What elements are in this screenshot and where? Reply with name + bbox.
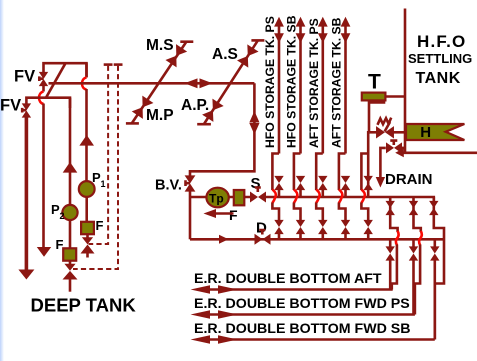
- ER FWD SB double arrow: [191, 335, 238, 344]
- svg-text:AFT STORAGE TK. SB: AFT STORAGE TK. SB: [330, 17, 344, 148]
- arrow right on D line: [219, 235, 229, 244]
- valve FV2: [22, 103, 31, 117]
- valve B.V.: [185, 175, 196, 191]
- svg-text:2: 2: [60, 211, 65, 221]
- svg-text:F: F: [96, 218, 104, 233]
- crossing drop 2: [294, 203, 301, 221]
- svg-text:E.R. DOUBLE BOTTOM FWD PS: E.R. DOUBLE BOTTOM FWD PS: [194, 296, 410, 312]
- wire branch 2 bypass: [415, 245, 420, 315]
- riser 1: [278, 22, 281, 154]
- suction drop to transfer pump: [190, 83, 254, 176]
- double arrow top 1: [274, 17, 284, 43]
- wire F1 valve stem: [86, 253, 89, 258]
- valve B drain cock: [386, 141, 402, 154]
- hop 2 over S line: [294, 190, 297, 204]
- svg-text:T: T: [368, 71, 381, 94]
- svg-text:1: 1: [101, 179, 106, 189]
- M.S M.P diagonal pipe: [132, 42, 187, 124]
- valve M.P: [132, 96, 154, 119]
- arrow down on FV2 line: [18, 270, 34, 280]
- storage group 3: AFT STORAGE TK. PS: [307, 17, 328, 240]
- valve S: [250, 188, 266, 203]
- wire branch 3 lower stems: [433, 239, 436, 339]
- valve ER branch 3 upper: [429, 201, 438, 215]
- wire line2 horizontal: [26, 98, 70, 108]
- svg-text:A.P.: A.P.: [181, 97, 209, 114]
- filter F1: [81, 222, 94, 234]
- ER FWD PS double arrow: [191, 310, 238, 319]
- svg-text:E.R. DOUBLE BOTTOM AFT: E.R. DOUBLE BOTTOM AFT: [194, 271, 382, 287]
- hop FV1 over line2: [39, 92, 44, 105]
- wire deep tank stem: [69, 279, 72, 292]
- wire FV1 line down to arrow: [42, 104, 45, 249]
- riser 5 from relief valve: [367, 132, 370, 153]
- wire branch 1 jog: [390, 214, 397, 232]
- valve A.P: [202, 99, 224, 122]
- double arrow on suction drop: [249, 111, 259, 135]
- valve storage 2 upper: [296, 176, 305, 190]
- split jog 3: [316, 154, 323, 191]
- tank connection T: [362, 93, 386, 101]
- valve below F2: [63, 264, 78, 280]
- wire P1 column top: [85, 63, 88, 77]
- arrow up on P2 column: [63, 162, 78, 173]
- wire valve B right: [402, 147, 406, 150]
- storage group 4: AFT STORAGE TK. SB: [330, 17, 351, 240]
- sounding pipe 1 dashed: [89, 66, 109, 244]
- valve storage 4 lower: [341, 220, 350, 234]
- valve drain upper: [364, 176, 373, 190]
- crossing drop 4: [339, 203, 346, 221]
- svg-text:SETTLING: SETTLING: [408, 51, 472, 66]
- double arrow top 3: [318, 17, 328, 43]
- wire relief valve right: [392, 131, 405, 134]
- svg-text:H.F.O: H.F.O: [417, 32, 466, 51]
- svg-text:HFO STORAGE TK. PS: HFO STORAGE TK. PS: [263, 16, 277, 148]
- valve ER branch 1 lower: [386, 246, 395, 260]
- svg-text:B.V.: B.V.: [155, 178, 182, 194]
- hop 5 over S line: [361, 190, 364, 204]
- wire branch 2 jog: [414, 214, 421, 232]
- wire valve 4 to S line: [344, 189, 347, 197]
- split jog 5: [361, 154, 368, 191]
- wire branch 1 lower stems: [389, 239, 392, 289]
- wire valve 2 to S line: [299, 189, 302, 197]
- hop 4 over S line: [339, 190, 342, 204]
- filter F transfer: [234, 190, 245, 205]
- wire top-left header: [44, 63, 87, 77]
- svg-text:F: F: [56, 237, 64, 252]
- relief valve A: [376, 126, 394, 138]
- ER AFT double arrow: [191, 285, 238, 294]
- svg-text:E.R. DOUBLE BOTTOM FWD SB: E.R. DOUBLE BOTTOM FWD SB: [194, 321, 410, 337]
- hop 1 over S line: [272, 190, 275, 204]
- ER FWD SB line: [205, 338, 435, 341]
- valve drain lower: [364, 220, 373, 234]
- wire branch 2 lower stems: [412, 239, 415, 314]
- right group branch 2: [409, 197, 422, 315]
- svg-text:F: F: [229, 207, 238, 223]
- main suction line: [49, 82, 255, 85]
- svg-text:AFT STORAGE TK. PS: AFT STORAGE TK. PS: [307, 18, 321, 148]
- wire T to tank: [385, 95, 405, 98]
- transfer pump Tp: [206, 188, 228, 208]
- wire FV2 line down to arrow: [25, 117, 29, 271]
- split jog 1: [272, 154, 279, 191]
- svg-text:DEEP TANK: DEEP TANK: [31, 295, 137, 316]
- drain arrow: [376, 177, 385, 188]
- hop branch 1 over D line: [396, 231, 399, 245]
- M.P end bar: [126, 122, 139, 125]
- crossing drop 5: [361, 203, 368, 221]
- arrow down on FV1 line: [37, 247, 51, 257]
- M.S end bar: [180, 40, 193, 43]
- valve ER branch 2 upper: [409, 201, 418, 215]
- hop 3 over S line: [316, 190, 319, 204]
- crossing drop 1: [272, 203, 279, 221]
- wire FV1 down to hop: [42, 85, 45, 92]
- sounding pipe 2 dashed: [73, 66, 118, 269]
- svg-text:Tp: Tp: [209, 192, 224, 206]
- wire drain valve to S line: [367, 153, 370, 197]
- arrow right on main line: [200, 78, 213, 88]
- wire drain riser from T connection: [369, 102, 385, 132]
- wire valve 2 lower stem: [299, 233, 302, 239]
- wire branch 2 upper: [412, 197, 415, 214]
- valve storage 1 upper: [274, 176, 283, 190]
- wire P2 to F2: [69, 220, 72, 248]
- svg-text:FV: FV: [0, 97, 21, 115]
- left edge blue strip: [0, 0, 4, 361]
- D filling line: [190, 238, 444, 241]
- arrow left under pump: [204, 209, 234, 218]
- svg-text:TANK: TANK: [416, 70, 461, 87]
- wire P1 column: [85, 89, 88, 182]
- wire branch 3 jog: [434, 214, 444, 340]
- right group branch 3: [429, 197, 444, 340]
- wire P2 column: [69, 98, 72, 206]
- wire branch 1 upper: [389, 197, 392, 214]
- riser 4: [344, 22, 347, 154]
- valve storage 3 lower: [318, 220, 327, 234]
- svg-text:FV: FV: [14, 68, 35, 86]
- wire valve 1 lower stem: [278, 233, 281, 239]
- wire valve 1 to S line: [278, 189, 281, 197]
- double arrow top 4: [341, 17, 351, 43]
- valve below F1: [81, 237, 95, 253]
- valve ER branch 2 lower: [409, 246, 418, 260]
- valve storage 1 lower: [274, 220, 283, 234]
- arrow up on P1 column: [79, 135, 94, 146]
- riser 3: [321, 22, 324, 154]
- arrow left on overflow line: [395, 148, 404, 157]
- filter F2: [63, 248, 76, 260]
- storage group 2: HFO STORAGE TK. SB: [285, 15, 306, 239]
- wire relief valve left: [370, 131, 378, 134]
- wire drain lower stem: [367, 233, 370, 239]
- S transfer line: [266, 197, 434, 201]
- double arrow top 2: [296, 17, 306, 43]
- overflow line right: [400, 152, 477, 155]
- valve D: [255, 230, 271, 245]
- svg-text:A.S: A.S: [212, 46, 238, 63]
- svg-text:M.P: M.P: [146, 107, 174, 124]
- valve storage 3 upper: [318, 176, 327, 190]
- wire P1 to F1: [85, 197, 88, 223]
- valve storage 4 upper: [341, 176, 350, 190]
- svg-text:HFO STORAGE TK. SB: HFO STORAGE TK. SB: [285, 15, 299, 148]
- H banner: [406, 124, 464, 140]
- wire valve B left to drain arrow: [380, 148, 385, 178]
- svg-text:M.S: M.S: [146, 37, 174, 54]
- H.F.O settling tank wall: [404, 9, 407, 154]
- sounding pipe 2 cap: [114, 63, 123, 66]
- hop P1 over main line: [82, 78, 87, 90]
- storage group 1: HFO STORAGE TK. PS: [263, 16, 284, 239]
- wire F2 to valve: [69, 261, 72, 264]
- arrow left on main line: [185, 78, 198, 88]
- pump suction line: [190, 196, 250, 199]
- wire valve 4 lower stem: [344, 233, 347, 239]
- diagonal crossover wire: [46, 63, 66, 97]
- wire valve 3 to S line: [321, 189, 324, 197]
- svg-text:DRAIN: DRAIN: [385, 171, 433, 188]
- relief valve spring: [378, 118, 392, 132]
- riser 2: [299, 22, 302, 154]
- wire B.V. to pump line: [189, 190, 192, 240]
- wire valve 3 lower stem: [321, 233, 324, 239]
- wire F1 to valve: [86, 234, 89, 238]
- A.S A.P diagonal pipe: [204, 40, 258, 124]
- right group branch 1: [386, 197, 399, 290]
- wire branch 1 bypass: [392, 245, 397, 290]
- sounding pipe 1 cap: [104, 63, 113, 66]
- pump P1: [79, 181, 95, 197]
- valve A.S: [237, 44, 259, 67]
- split jog 2: [294, 154, 301, 191]
- valve FV1: [39, 72, 48, 86]
- ER FWD PS line: [205, 313, 415, 316]
- svg-text:H: H: [420, 124, 431, 141]
- valve ER branch 3 lower: [430, 246, 439, 260]
- A.S end bar: [251, 39, 264, 42]
- wire branch 3 upper: [432, 197, 435, 214]
- valve storage 2 lower: [296, 220, 305, 234]
- split jog 4: [339, 154, 346, 191]
- hop branch 2 over D line: [419, 231, 422, 245]
- valve ER branch 1 upper: [386, 201, 395, 215]
- drain group 5: [361, 102, 385, 239]
- ER AFT line: [205, 288, 393, 291]
- crossing drop 3: [316, 203, 323, 221]
- valve M.S: [165, 44, 187, 67]
- pump P2: [62, 205, 77, 220]
- A.P end bar: [197, 123, 211, 126]
